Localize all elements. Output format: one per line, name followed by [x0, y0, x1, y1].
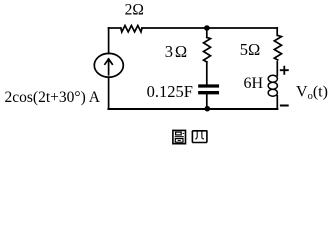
svg-text:3Ω: 3Ω	[165, 42, 187, 61]
caption glyph SI (four)	[192, 130, 207, 142]
wire middle branch between resistor and capacitor	[206, 62, 208, 84]
svg-text:Vo(t): Vo(t)	[296, 84, 328, 103]
resistor R 5ohm vertical zigzag	[274, 35, 281, 60]
wire top right segment	[207, 27, 277, 29]
wire top-left horizontal lead	[109, 27, 121, 29]
current source IS circle	[94, 53, 123, 77]
svg-text:5Ω: 5Ω	[240, 40, 261, 59]
node junction dot bottom	[205, 106, 211, 112]
wire left vertical from corner to source top	[108, 28, 110, 53]
resistor R 2ohm horizontal zigzag	[121, 26, 142, 32]
svg-text:0.125F: 0.125F	[147, 82, 193, 101]
svg-text:2cos(2t+30°) A: 2cos(2t+30°) A	[5, 89, 101, 106]
current source arrow	[105, 59, 112, 75]
wire bottom rail	[109, 108, 278, 110]
inductor L 6H loop 2	[268, 82, 277, 89]
node junction dot top	[204, 25, 210, 31]
capacitor C 0.125F top plate	[200, 84, 218, 87]
caption glyph TU (figure)	[173, 130, 186, 143]
svg-text:2Ω: 2Ω	[125, 2, 144, 19]
inductor L 6H loop 3	[268, 89, 277, 96]
polarity plus sign	[280, 66, 289, 75]
wire right branch top stub	[276, 28, 278, 35]
wire right branch below inductor	[276, 96, 278, 109]
wire left vertical from source bottom to bottom rail	[108, 77, 110, 109]
inductor L 6H loop 1	[268, 75, 277, 82]
svg-text:6H: 6H	[244, 75, 264, 92]
polarity minus sign	[280, 105, 289, 107]
resistor R 3ohm vertical zigzag	[204, 37, 211, 62]
wire middle branch top stub	[206, 28, 208, 37]
capacitor C 0.125F bottom plate	[200, 91, 218, 94]
wire right branch between resistor and inductor	[276, 62, 278, 76]
wire middle branch below capacitor	[206, 94, 208, 109]
wire top middle segment	[142, 27, 207, 29]
